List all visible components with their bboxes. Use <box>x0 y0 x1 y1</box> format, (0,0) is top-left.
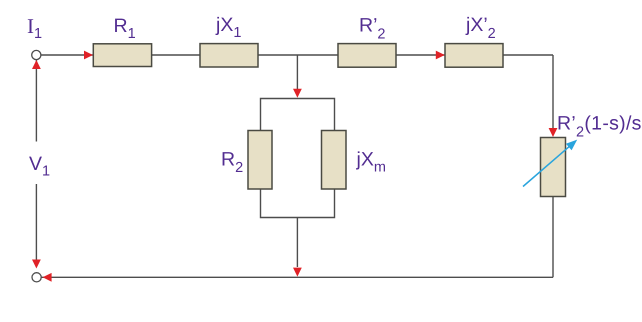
svg-text:jXm: jXm <box>356 148 386 175</box>
svg-text:R’2: R’2 <box>359 15 386 43</box>
svg-text:R’2(1-s)/s: R’2(1-s)/s <box>557 113 642 141</box>
svg-text:jX’2: jX’2 <box>465 14 496 42</box>
svg-text:V1: V1 <box>29 153 50 180</box>
svg-text:I1: I1 <box>27 14 42 42</box>
svg-text:R2: R2 <box>221 149 243 177</box>
svg-text:jX1: jX1 <box>215 14 241 41</box>
svg-text:R1: R1 <box>114 15 136 42</box>
